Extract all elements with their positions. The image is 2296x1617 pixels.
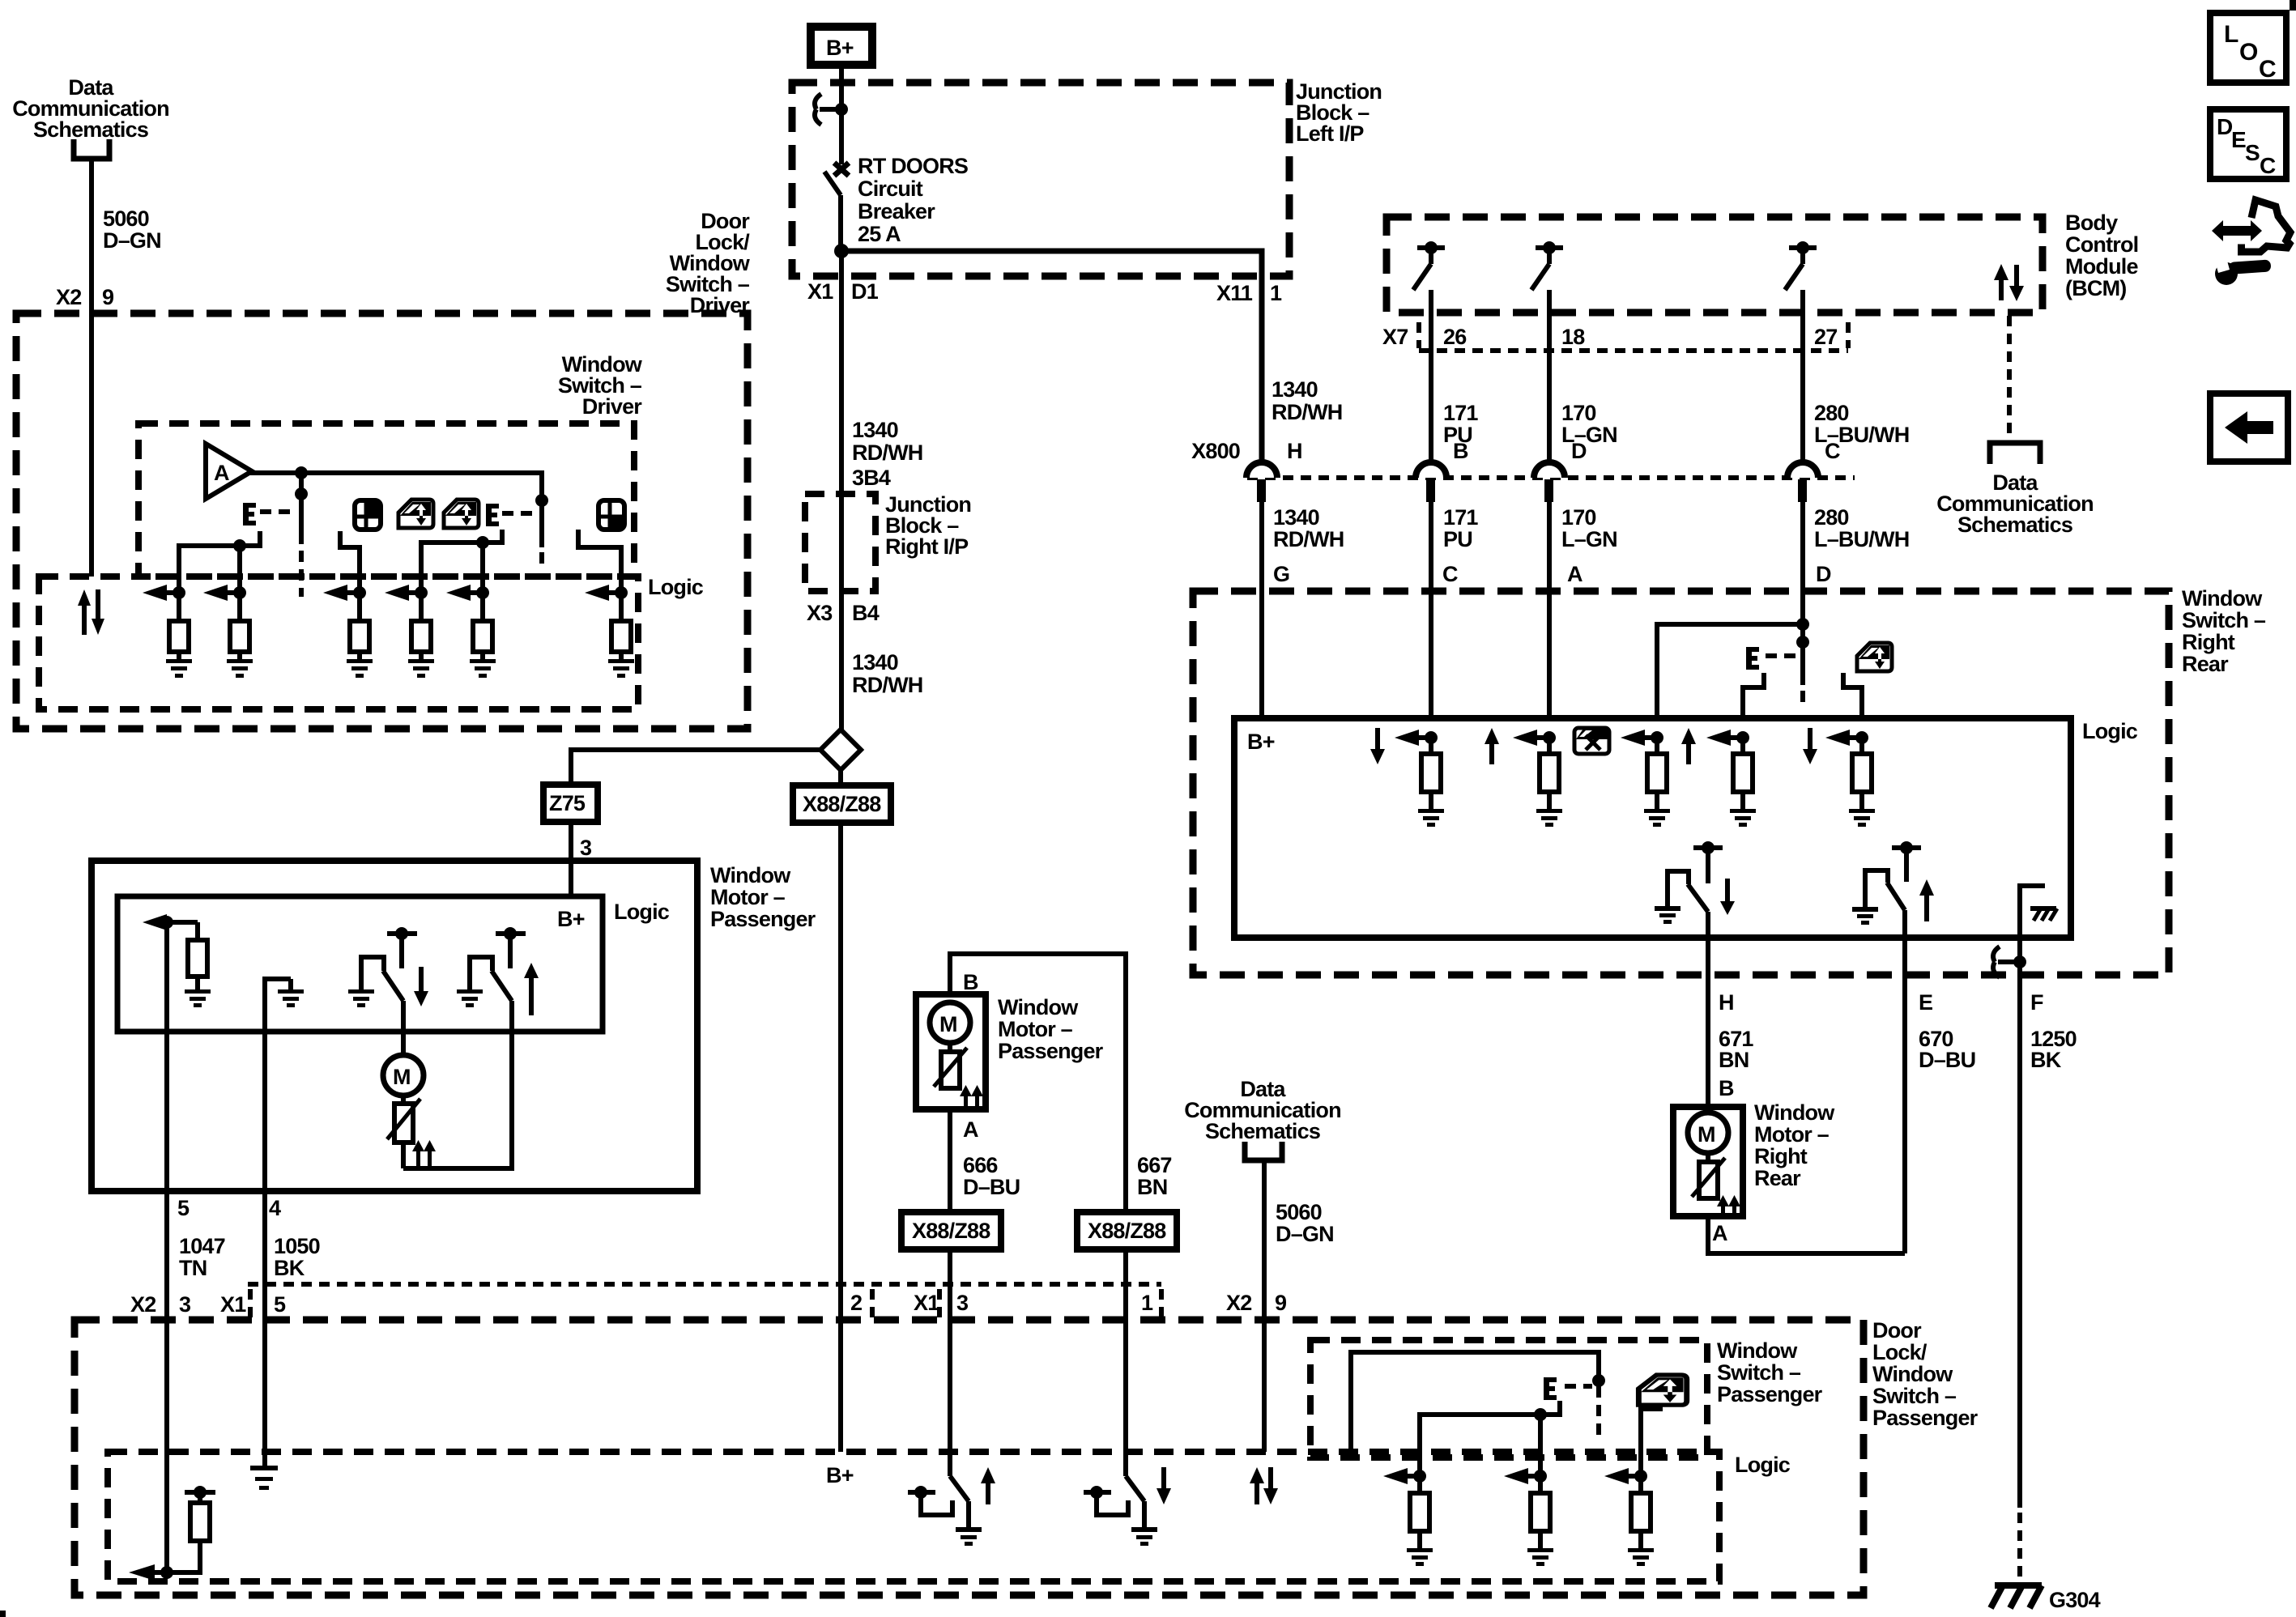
svg-text:B: B — [1453, 439, 1468, 463]
cell 3 output arrow — [323, 585, 366, 601]
svg-text:L–GN: L–GN — [1561, 423, 1617, 447]
label wire 171 PU (upper) — [1443, 401, 1478, 447]
ground (cell2) — [227, 659, 253, 678]
label wire 171 PU (lower) — [1443, 505, 1478, 551]
label wire 670 D-BU — [1919, 1027, 1975, 1072]
svg-text:X88/Z88: X88/Z88 — [1088, 1219, 1166, 1243]
switch: motor up (driver door, passenger motor) — [470, 927, 526, 1032]
svg-text:F: F — [2030, 990, 2043, 1015]
module box: Junction Block - Right I/P (dashed) — [805, 494, 875, 591]
svg-text:Window: Window — [1872, 1362, 1953, 1386]
up/down arrows (BCM serial data) — [1994, 264, 2024, 301]
svg-text:X3: X3 — [807, 601, 833, 625]
ground (motor logic resistor) — [185, 989, 211, 1007]
motor: Window Motor - Right Rear — [1673, 1107, 1743, 1216]
ground (cell C) — [1418, 809, 1444, 827]
wire loop motor A to 670 D-BU — [1708, 1216, 1905, 1253]
svg-text:Z75: Z75 — [549, 791, 586, 815]
ground (cell6) — [608, 659, 634, 678]
down arrow (cell icon) — [1803, 728, 1817, 764]
label wire 170 L-GN (lower) — [1561, 505, 1617, 551]
double up arrows (rr thermistor) — [1717, 1195, 1740, 1217]
wire D jog to lockout cell — [1657, 618, 1809, 718]
svg-text:171: 171 — [1443, 401, 1478, 425]
splice label X88/Z88 (wire 667) — [1077, 1212, 1177, 1249]
icon: window up/down (2) — [444, 500, 479, 528]
svg-text:Breaker: Breaker — [858, 199, 935, 223]
svg-text:C: C — [2259, 56, 2277, 83]
bus wire from buffer A — [249, 473, 542, 547]
svg-text:Passenger: Passenger — [710, 907, 816, 931]
motor: Window Motor - Passenger — [916, 994, 986, 1109]
down arrow (sw 667) — [1157, 1467, 1171, 1504]
sub box: Window Switch - Passenger (dashed) — [1310, 1340, 1707, 1457]
label wire 1340 RD/WH (below X800) — [1273, 505, 1344, 551]
svg-text:Motor –: Motor – — [1754, 1122, 1830, 1147]
svg-text:L–GN: L–GN — [1561, 527, 1617, 551]
svg-text:D–BU: D–BU — [1919, 1048, 1975, 1072]
svg-text:C: C — [1825, 439, 1840, 463]
svg-text:280: 280 — [1814, 401, 1849, 425]
double up arrows (thermal) — [412, 1140, 436, 1167]
svg-text:Rear: Rear — [2182, 652, 2229, 676]
pin labels 26 18 27 — [1443, 325, 1837, 349]
connector label X2 / 9 — [1226, 1291, 1287, 1315]
off-page bracket (BCM serial data) — [1990, 443, 2040, 464]
icon: LOC box — [2210, 13, 2286, 83]
svg-text:Driver: Driver — [582, 394, 643, 419]
ground (cell3) — [347, 659, 373, 678]
ground (cell1) — [166, 659, 192, 678]
icon: back arrow box — [2210, 394, 2288, 462]
svg-text:D–GN: D–GN — [103, 228, 161, 253]
svg-text:1047: 1047 — [179, 1234, 225, 1258]
svg-text:26: 26 — [1443, 325, 1467, 349]
up arrow (cell A) — [1485, 728, 1499, 764]
motor M (passenger window, in driver module) — [383, 1055, 424, 1096]
switch: passenger motor up (wire 666) — [908, 1452, 969, 1527]
connector label X3 / B4 — [807, 601, 880, 625]
corner mark top right — [2290, 0, 2296, 11]
wire F 1250 BK — [2017, 938, 2022, 1508]
connector row X2/3 X1/5 — [130, 1292, 286, 1317]
svg-text:Window: Window — [998, 995, 1079, 1019]
power symbol B+ — [811, 27, 872, 65]
svg-text:Lock/: Lock/ — [1872, 1340, 1928, 1364]
buffer A (driver switch) — [206, 444, 252, 499]
connector stubs — [250, 1289, 1161, 1318]
svg-text:PU: PU — [1443, 527, 1472, 551]
node E lockout (left) — [243, 503, 256, 526]
label: Window Switch - Right Rear — [2182, 586, 2266, 676]
down arrow — [414, 967, 428, 1006]
connector X7 row — [1382, 322, 1848, 351]
resistor R-cell4 — [411, 593, 431, 659]
svg-text:1050: 1050 — [274, 1234, 320, 1258]
wire 667 down to switch — [1123, 1249, 1128, 1476]
connector line X1 (passenger door harness) — [248, 1282, 1161, 1287]
wire B+ into junction block — [839, 69, 844, 164]
junction on bus — [295, 466, 308, 479]
node E lockout (passenger) — [1544, 1377, 1592, 1400]
splice label X88/Z88 (trunk) — [793, 770, 891, 823]
BCM driver switch output 26 — [1413, 241, 1445, 463]
cell D: arrow + resistor + ground — [1621, 730, 1667, 809]
svg-text:S: S — [2245, 140, 2260, 165]
wire to X11 — [841, 251, 1262, 463]
svg-text:Passenger: Passenger — [998, 1039, 1104, 1063]
label: Body Control Module (BCM) — [2065, 211, 2138, 300]
label: RT DOORS Circuit Breaker 25 A — [858, 154, 968, 246]
wire trunk X88/Z88 down to passenger door module — [838, 823, 843, 1452]
svg-text:Circuit: Circuit — [858, 177, 923, 201]
module box: Door Lock/Window Switch - Passenger (dashed) — [75, 1320, 1864, 1595]
svg-text:B+: B+ — [826, 1463, 854, 1487]
down arrow (5060 data in) — [1263, 1467, 1278, 1504]
svg-text:B+: B+ — [826, 36, 854, 60]
cell C: arrow + resistor + ground — [1395, 730, 1441, 809]
svg-text:B4: B4 — [852, 601, 880, 625]
icon: window up/down (passenger) — [1638, 1375, 1686, 1405]
sub box: Window Switch - Driver (dashed) — [138, 423, 634, 577]
svg-text:M: M — [1698, 1122, 1715, 1147]
wire 5060 D-GN (driver serial data) — [89, 159, 94, 577]
svg-text:Schematics: Schematics — [1205, 1119, 1320, 1143]
connector labels 2 / X1 / 3 / 1 — [850, 1289, 1153, 1318]
module box: Window Switch - Right Rear (dashed) — [1193, 591, 2169, 975]
module box: Junction Block - Left I/P (dashed) — [792, 83, 1289, 276]
svg-text:D: D — [1571, 439, 1587, 463]
connector X800 row — [1191, 439, 1855, 478]
svg-text:M: M — [393, 1065, 411, 1089]
ground (up switch) — [457, 989, 483, 1007]
off-page bracket (top left) — [74, 139, 109, 159]
svg-text:X88/Z88: X88/Z88 — [803, 792, 881, 816]
svg-text:X7: X7 — [1382, 325, 1408, 349]
dashed BK section to ground — [2017, 1513, 2022, 1581]
svg-text:B+: B+ — [557, 907, 585, 931]
svg-text:Control: Control — [2065, 232, 2138, 257]
chassis ground G304 — [1991, 1585, 2101, 1612]
svg-text:1340: 1340 — [852, 418, 898, 442]
resistor (motor logic) — [188, 922, 207, 989]
svg-text:G304: G304 — [2049, 1588, 2101, 1612]
label: Junction Block - Right I/P — [885, 492, 971, 559]
svg-text:Window: Window — [710, 863, 791, 887]
wire 666 down to switch — [948, 1249, 952, 1476]
label wire 5060 D-GN — [103, 206, 161, 253]
ground (cell E) — [1730, 809, 1756, 827]
wire: right switch feed — [578, 530, 621, 593]
pass-through connector D — [1534, 439, 1587, 718]
connector label X11 / 1 — [1216, 281, 1282, 305]
svg-text:667: 667 — [1137, 1153, 1172, 1177]
svg-text:A: A — [963, 1117, 978, 1142]
chassis ground hook (logic F) — [2020, 886, 2057, 938]
label: Window Motor - Right Rear — [1754, 1100, 1835, 1190]
BCM driver switch output 18 — [1531, 241, 1563, 463]
svg-text:Logic: Logic — [648, 575, 704, 599]
label: Door Lock/Window Switch - Driver — [666, 209, 751, 317]
svg-text:A: A — [1567, 562, 1582, 586]
down arrow (rr switch) — [1720, 879, 1735, 915]
svg-text:Switch –: Switch – — [1872, 1384, 1957, 1408]
svg-text:9: 9 — [102, 285, 114, 309]
resistor R-cell1 — [169, 593, 189, 659]
pin labels H E F — [1719, 990, 2043, 1015]
resistor R-cell6 — [611, 593, 631, 659]
svg-text:1340: 1340 — [852, 650, 898, 674]
cell: output arrow + resistor to ground — [143, 914, 198, 930]
wire: switch common horizontal — [1420, 1401, 1560, 1476]
svg-text:3B4: 3B4 — [852, 466, 891, 490]
up arrow (5060 data in) — [1250, 1467, 1264, 1504]
E linked vertical (left) — [299, 473, 304, 544]
label wire 671 BN — [1719, 1027, 1753, 1072]
ground (cell P3) — [1628, 1548, 1654, 1566]
cell A: arrow + resistor + ground — [1513, 730, 1559, 809]
svg-text:H: H — [1287, 439, 1302, 463]
cell P1: arrow + resistor + ground — [1383, 1468, 1429, 1548]
wire branch to Z75 — [571, 750, 820, 785]
svg-text:Logic: Logic — [614, 900, 670, 924]
splice diamond node — [820, 730, 861, 770]
svg-text:Window: Window — [1754, 1100, 1835, 1125]
icon: window up/down (1) — [398, 500, 433, 528]
svg-text:25 A: 25 A — [858, 222, 901, 246]
label: Window Switch - Driver — [558, 352, 643, 419]
svg-text:5: 5 — [177, 1196, 190, 1220]
svg-text:170: 170 — [1561, 505, 1596, 530]
svg-text:18: 18 — [1561, 325, 1585, 349]
splice label Z75 — [543, 785, 598, 822]
splice label X88/Z88 (wire 666) — [901, 1212, 1001, 1249]
cell icon-fed: arrow + resistor + ground — [1825, 730, 1872, 809]
svg-text:Driver: Driver — [690, 293, 751, 317]
svg-text:4: 4 — [269, 1196, 281, 1220]
icon: data exchange / wrench — [2212, 200, 2290, 285]
wire: passenger switch loop — [1351, 1352, 1599, 1457]
logic box of driver switch (dashed) — [39, 577, 638, 709]
cell E: arrow + resistor + ground — [1706, 730, 1753, 809]
svg-text:Door: Door — [1872, 1318, 1922, 1343]
label: Junction Block - Left I/P — [1296, 79, 1382, 146]
svg-text:Schematics: Schematics — [1957, 513, 2072, 537]
BCM driver switch output 27 — [1785, 241, 1817, 463]
svg-text:BK: BK — [274, 1256, 305, 1280]
pass-through connector C — [1787, 439, 1840, 624]
up arrow (cell E) — [1681, 728, 1696, 764]
svg-text:G: G — [1273, 562, 1289, 586]
ground return pin 4 (inside logic) — [265, 979, 291, 1191]
label wire 1047 TN — [179, 1234, 225, 1280]
up arrow — [524, 963, 539, 1015]
cell P3: arrow + resistor + ground — [1604, 1468, 1651, 1548]
switch: motor down (driver door, passenger motor) — [361, 927, 417, 1056]
svg-text:X11: X11 — [1216, 281, 1253, 305]
logic box (right rear switch, solid) — [1234, 718, 2071, 938]
resistor R-cell3 — [350, 593, 369, 659]
svg-text:D–BU: D–BU — [963, 1175, 1020, 1199]
svg-text:27: 27 — [1814, 325, 1837, 349]
up arrow (rr switch) — [1919, 879, 1934, 921]
connector label X1 / D1 — [807, 279, 879, 304]
ground (cell icon) — [1849, 809, 1875, 827]
icon: door lock 4-pane (right) — [598, 500, 624, 530]
svg-text:BN: BN — [1719, 1048, 1749, 1072]
label wire 170 L-GN (upper) — [1561, 401, 1617, 447]
svg-text:M: M — [939, 1012, 957, 1036]
module box: Window Motor - Passenger (solid) — [92, 861, 697, 1191]
svg-text:B: B — [1719, 1076, 1734, 1100]
svg-text:H: H — [1719, 990, 1734, 1015]
svg-text:O: O — [2239, 39, 2258, 66]
svg-text:1340: 1340 — [1272, 377, 1318, 402]
svg-text:2: 2 — [850, 1291, 862, 1315]
switch: passenger motor down (wire 667) — [1084, 1452, 1144, 1527]
svg-text:280: 280 — [1814, 505, 1849, 530]
ground (down switch) — [348, 989, 374, 1007]
ground (down switch rr) — [1655, 906, 1680, 924]
node: Data Communication Schematics (right) — [1936, 470, 2094, 537]
ground (cell D) — [1644, 809, 1670, 827]
svg-text:3: 3 — [179, 1292, 191, 1317]
svg-text:L: L — [2224, 21, 2238, 48]
svg-text:X1: X1 — [914, 1291, 939, 1315]
svg-text:X2: X2 — [130, 1292, 155, 1317]
junction at right corner — [535, 494, 548, 507]
wire 1047 TN down — [164, 1191, 169, 1572]
svg-text:Body: Body — [2065, 211, 2118, 235]
dashed serial data stub from BCM — [2007, 316, 2012, 443]
svg-text:3: 3 — [956, 1291, 969, 1315]
label wire 1340 RD/WH (left trunk) — [852, 418, 922, 465]
svg-text:X88/Z88: X88/Z88 — [912, 1219, 990, 1243]
label wire 1340 RD/WH (right trunk) — [1272, 377, 1342, 424]
svg-text:Passenger: Passenger — [1872, 1406, 1979, 1430]
svg-text:B: B — [963, 970, 978, 994]
cell 5 output arrow — [446, 585, 489, 601]
wire from window icon to cell — [1843, 673, 1862, 718]
icon: window up/down (right rear) — [1857, 643, 1892, 671]
svg-text:E: E — [2231, 127, 2247, 152]
label wire 280 L-BU/WH (upper) — [1814, 401, 1909, 447]
ground (cell P2) — [1527, 1548, 1553, 1566]
wire Z75 to motor logic — [569, 822, 573, 896]
pin letters G C A D — [1273, 562, 1831, 586]
node: Data Communication Schematics reference (top left) — [12, 75, 169, 142]
cell 4 output arrow — [385, 585, 428, 601]
clip symbol on F wire — [1993, 947, 2026, 977]
ground (sw 666) — [956, 1527, 982, 1546]
pass-through connector B — [1416, 439, 1468, 718]
svg-text:D–GN: D–GN — [1276, 1222, 1334, 1246]
wire: middle switch pair feed — [340, 531, 360, 593]
svg-text:A: A — [214, 461, 230, 485]
pin labels 5 and 4 — [177, 1196, 281, 1220]
svg-text:1: 1 — [1270, 281, 1282, 305]
ground (cell A) — [1536, 809, 1562, 827]
svg-text:Logic: Logic — [2082, 719, 2138, 743]
corner mark bottom left — [0, 1611, 6, 1617]
svg-text:5: 5 — [274, 1292, 286, 1317]
svg-text:Passenger: Passenger — [1717, 1382, 1823, 1406]
svg-text:Switch –: Switch – — [2182, 608, 2266, 632]
pass-through connector H — [1246, 439, 1302, 591]
cell 1 output arrow — [143, 585, 185, 601]
svg-text:X2: X2 — [56, 285, 81, 309]
label wire 1340 RD/WH (below right I/P) — [852, 650, 922, 697]
label wire 1250 BK — [2030, 1027, 2077, 1072]
wire G into logic box — [1259, 591, 1264, 718]
thermistor (PTC) — [387, 1096, 420, 1168]
svg-text:X800: X800 — [1191, 439, 1240, 463]
svg-text:B+: B+ — [1247, 730, 1275, 754]
ground (sw 667) — [1131, 1527, 1157, 1546]
svg-text:Switch –: Switch – — [1717, 1360, 1801, 1385]
wire from passenger window icon — [1641, 1409, 1663, 1476]
ground (cell P1) — [1407, 1548, 1433, 1566]
svg-text:RD/WH: RD/WH — [852, 673, 922, 697]
wire A 666 D-BU — [948, 1109, 952, 1212]
svg-text:5060: 5060 — [103, 206, 149, 231]
label wire 666 D-BU — [963, 1153, 1020, 1199]
svg-text:170: 170 — [1561, 401, 1596, 425]
cell: TN feedback arrow + pull-up resistor — [129, 1486, 215, 1581]
icon: DESC box — [2210, 109, 2286, 179]
up arrow (sw 666) — [981, 1467, 995, 1504]
ground (cell5) — [470, 659, 496, 678]
off-page bracket (middle) — [1245, 1142, 1282, 1160]
node: Data Communication Schematics (middle) — [1184, 1077, 1341, 1143]
svg-text:D1: D1 — [851, 279, 879, 304]
svg-text:Right I/P: Right I/P — [885, 534, 969, 559]
svg-text:RD/WH: RD/WH — [1272, 400, 1342, 424]
label wire 1050 BK — [274, 1234, 320, 1280]
module box: Body Control Module (BCM) dashed — [1387, 217, 2043, 313]
wire pin5 from arrow junction — [164, 922, 169, 1191]
svg-text:9: 9 — [1275, 1291, 1287, 1315]
icon: door lock 4-pane (left) — [355, 500, 381, 530]
svg-text:X2: X2 — [1226, 1291, 1251, 1315]
svg-text:BK: BK — [2030, 1048, 2062, 1072]
svg-text:Schematics: Schematics — [33, 117, 148, 142]
label: Window Motor - Passenger — [998, 995, 1104, 1063]
wire 1050 BK down — [262, 1191, 267, 1466]
svg-text:Module: Module — [2065, 254, 2138, 279]
svg-text:D: D — [1816, 562, 1831, 586]
svg-text:L–BU/WH: L–BU/WH — [1814, 527, 1909, 551]
cell 2 output arrow — [203, 585, 246, 601]
svg-text:1340: 1340 — [1273, 505, 1319, 530]
down arrow (cell C) — [1370, 728, 1385, 764]
junction node under breaker — [834, 244, 849, 258]
svg-text:Logic: Logic — [1735, 1453, 1791, 1477]
svg-text:A: A — [1712, 1221, 1727, 1245]
svg-text:3: 3 — [580, 836, 592, 860]
svg-text:TN: TN — [179, 1256, 207, 1280]
svg-text:E: E — [1919, 990, 1932, 1015]
ground (up switch rr) — [1852, 907, 1878, 925]
svg-text:666: 666 — [963, 1153, 998, 1177]
switch: right rear up (output E) — [1865, 841, 1921, 1253]
svg-text:RD/WH: RD/WH — [852, 440, 922, 465]
svg-text:1: 1 — [1141, 1291, 1153, 1315]
logic box (passenger module, dashed) — [108, 1452, 1719, 1581]
icon: window lockout X — [1574, 728, 1609, 754]
svg-text:BN: BN — [1137, 1175, 1167, 1199]
label: Window Motor - Passenger — [710, 863, 816, 931]
